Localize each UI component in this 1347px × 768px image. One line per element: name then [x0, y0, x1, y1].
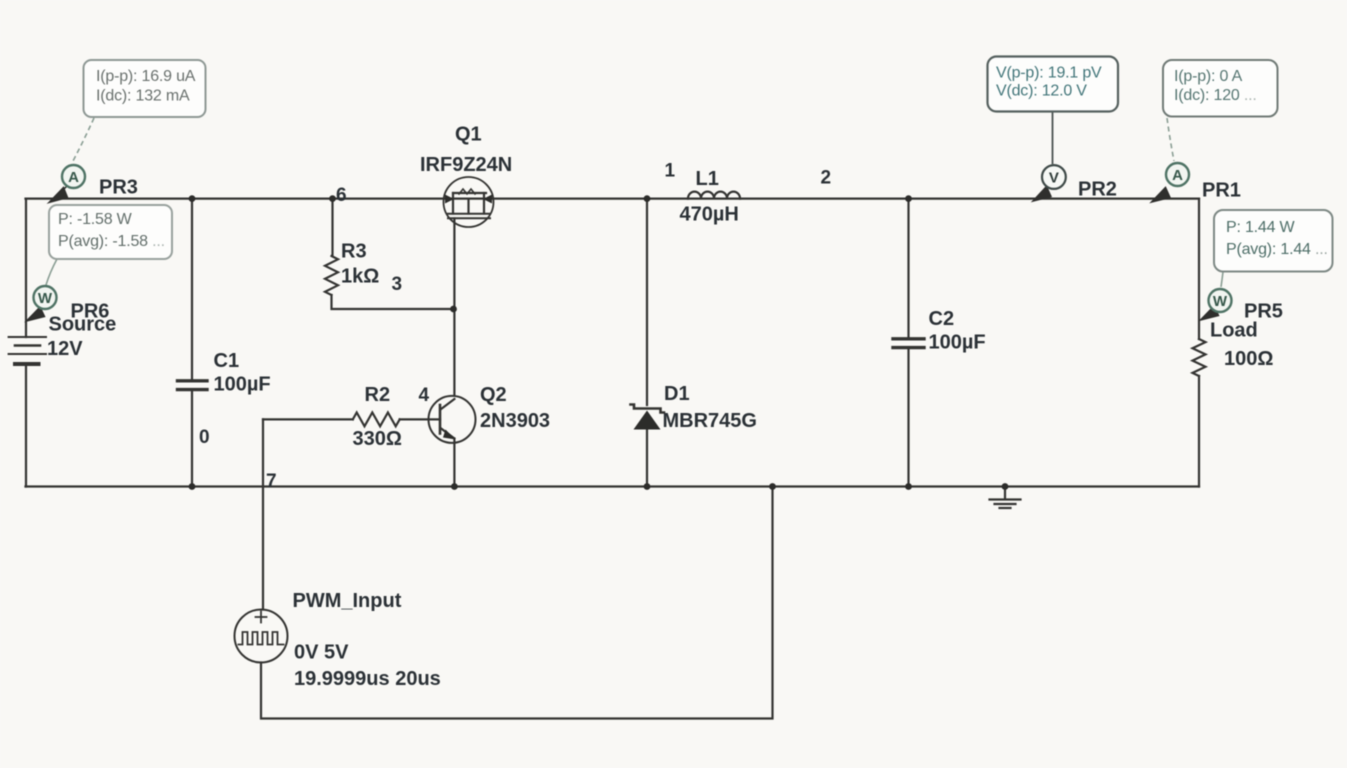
svg-text:P: -1.58 W: P: -1.58 W	[58, 211, 133, 228]
svg-text:1kΩ: 1kΩ	[341, 266, 379, 288]
svg-text:0V 5V: 0V 5V	[294, 642, 349, 664]
svg-text:4: 4	[419, 385, 430, 406]
svg-text:12V: 12V	[47, 338, 83, 360]
svg-text:Q2: Q2	[480, 384, 507, 406]
svg-text:V: V	[1049, 170, 1059, 187]
svg-text:C2: C2	[929, 308, 955, 330]
svg-text:Load: Load	[1210, 320, 1258, 342]
svg-text:Q1: Q1	[455, 124, 482, 146]
svg-text:V(p-p): 19.1 pV: V(p-p): 19.1 pV	[996, 65, 1102, 82]
svg-text:MBR745G: MBR745G	[663, 410, 757, 432]
svg-text:P: 1.44 W: P: 1.44 W	[1226, 219, 1296, 236]
svg-text:I(p-p): 16.9 uA: I(p-p): 16.9 uA	[96, 68, 196, 85]
svg-text:A: A	[68, 169, 79, 186]
svg-text:100Ω: 100Ω	[1224, 348, 1273, 370]
svg-text:6: 6	[336, 185, 347, 206]
svg-text:0: 0	[199, 427, 210, 448]
svg-text:2: 2	[821, 168, 832, 189]
svg-text:PR1: PR1	[1202, 180, 1241, 202]
svg-text:PR3: PR3	[99, 177, 138, 199]
svg-text:100µF: 100µF	[929, 332, 986, 354]
svg-text:I(dc): 120 ...: I(dc): 120 ...	[1174, 87, 1257, 104]
svg-text:IRF9Z24N: IRF9Z24N	[420, 154, 512, 176]
svg-text:7: 7	[266, 471, 277, 492]
svg-text:W: W	[38, 290, 53, 307]
svg-text:1: 1	[665, 161, 676, 182]
svg-text:I(dc): 132 mA: I(dc): 132 mA	[96, 88, 190, 105]
svg-text:3: 3	[392, 274, 403, 295]
svg-text:PR2: PR2	[1078, 179, 1117, 201]
svg-text:2N3903: 2N3903	[480, 410, 550, 432]
svg-text:C1: C1	[214, 350, 240, 372]
svg-text:PWM_Input: PWM_Input	[293, 590, 402, 612]
svg-text:P(avg): 1.44 ...: P(avg): 1.44 ...	[1226, 241, 1328, 258]
svg-text:L1: L1	[696, 168, 719, 190]
svg-text:330Ω: 330Ω	[353, 428, 402, 450]
svg-text:A: A	[1172, 167, 1183, 184]
svg-text:470µH: 470µH	[680, 204, 739, 226]
svg-text:19.9999us 20us: 19.9999us 20us	[294, 668, 441, 690]
svg-text:R3: R3	[341, 241, 367, 263]
svg-text:Source: Source	[49, 314, 117, 336]
svg-text:W: W	[1213, 293, 1228, 310]
svg-text:D1: D1	[664, 383, 690, 405]
svg-text:100µF: 100µF	[214, 374, 271, 396]
svg-text:I(p-p): 0 A: I(p-p): 0 A	[1174, 68, 1243, 85]
svg-text:P(avg): -1.58 ...: P(avg): -1.58 ...	[58, 233, 165, 250]
svg-text:R2: R2	[365, 384, 391, 406]
svg-text:V(dc): 12.0 V: V(dc): 12.0 V	[996, 83, 1087, 100]
